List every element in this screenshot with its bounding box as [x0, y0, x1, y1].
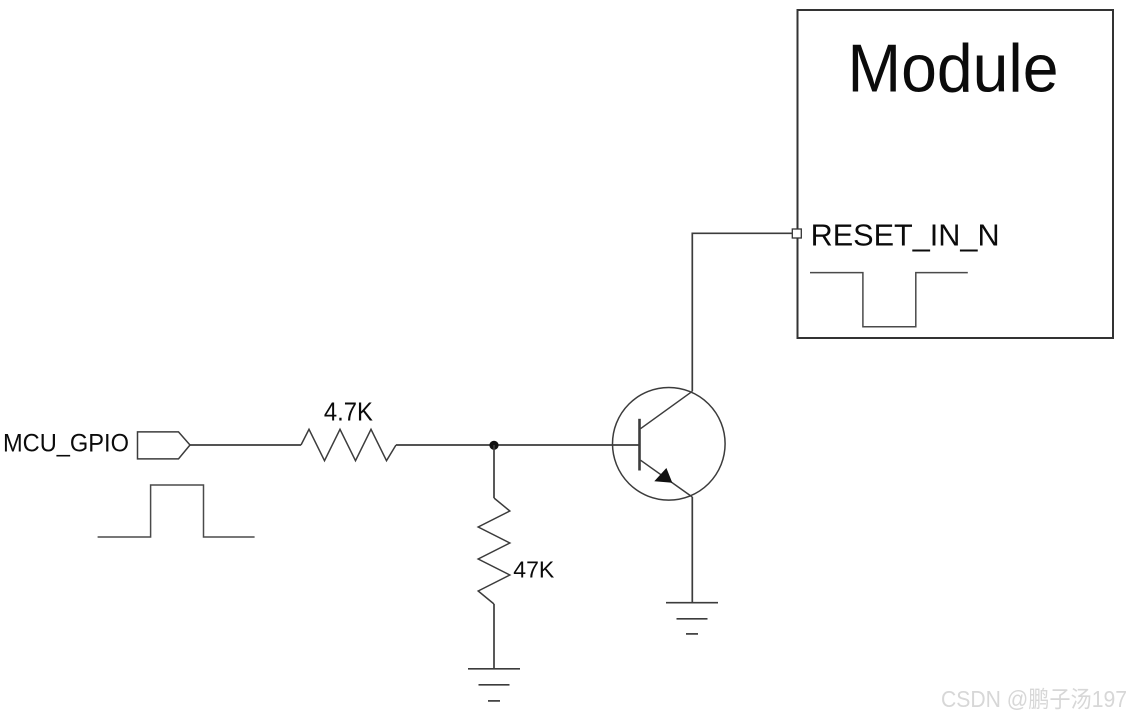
svg-text:4.7K: 4.7K [324, 396, 374, 426]
svg-text:RESET_IN_N: RESET_IN_N [811, 219, 1000, 253]
svg-text:CSDN @鹏子汤197: CSDN @鹏子汤197 [941, 686, 1127, 712]
svg-text:Module: Module [848, 31, 1059, 107]
svg-text:MCU_GPIO: MCU_GPIO [3, 430, 129, 458]
svg-text:47K: 47K [513, 557, 554, 583]
